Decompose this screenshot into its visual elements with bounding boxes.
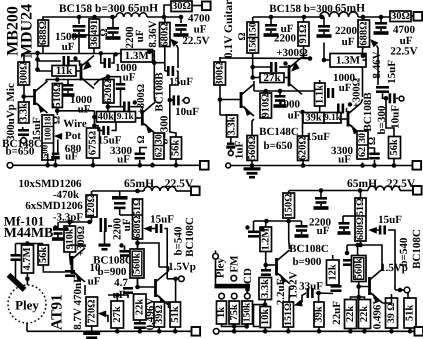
svg-text:39k: 39k: [314, 306, 325, 323]
wire 1.5Vp node: [167, 278, 176, 280]
wire leftcap down: [15, 261, 17, 279]
transistor BC148C (TR): [240, 84, 254, 116]
wire qBR2 collector: [381, 268, 384, 269]
wire 150 top: [288, 191, 290, 194]
resistor 36/491 stack: [89, 19, 100, 48]
wire 3300 tap: [140, 148, 147, 153]
svg-text:51Ω: 51Ω: [132, 198, 143, 216]
svg-text:9.1k: 9.1k: [324, 113, 342, 123]
svg-text:Pley: Pley: [15, 298, 39, 313]
wire 620 cap row: [108, 106, 123, 108]
wire cap910 stem: [57, 222, 59, 230]
wire tr left mid: [220, 57, 310, 60]
wire 910k stem: [69, 222, 71, 226]
svg-text:BC108B: BC108B: [154, 72, 166, 112]
svg-text:1.3M: 1.3M: [336, 54, 361, 66]
junction 620TR top: [300, 110, 305, 115]
junction rail TL 3: [91, 163, 96, 168]
transistor BC108C (BR2): [368, 269, 382, 303]
wire 1.3MTR left: [324, 59, 330, 61]
ground SMD (BL): [99, 244, 111, 251]
resistor 120ohm: [86, 194, 97, 218]
wire 22k-cap: [139, 320, 141, 322]
wire qBR2 base down: [358, 287, 360, 298]
terminal TR bottom right: [413, 161, 422, 170]
wire 3.3kBR bot: [264, 300, 266, 305]
wire wiper to 15uF: [177, 45, 179, 68]
wire 910k top rail: [59, 221, 92, 223]
resistor 680ohm (TL): [159, 22, 170, 46]
resistor 675ohm: [87, 128, 100, 158]
resistor 9.1k: [115, 112, 136, 123]
terminal sel 2: [231, 293, 237, 299]
wire TL mid rail: [24, 53, 121, 55]
wire wiperBR: [377, 229, 379, 231]
terminal sel 1: [219, 293, 225, 299]
wire pot wiper lead: [57, 140, 59, 153]
wire 4.7 stem: [127, 294, 129, 298]
wire 51kBR bot: [409, 328, 411, 331]
inductor 65mH (BR): [368, 186, 400, 190]
svg-text:56k: 56k: [389, 139, 400, 156]
svg-text:40k: 40k: [98, 111, 115, 122]
wire 15uFBL right: [164, 229, 167, 279]
wire 6230TR bottom: [362, 163, 364, 166]
junction railBL 1: [115, 329, 120, 334]
wire 4.7M frame: [16, 243, 44, 245]
resistor 680/51 stack (BL): [132, 198, 143, 239]
svg-text:1.1k: 1.1k: [314, 85, 325, 104]
junction TR rail b: [302, 15, 307, 20]
capacitor 2200uF (TR): [264, 24, 279, 37]
junction BR rail b: [358, 188, 363, 193]
junction sel bus2: [244, 324, 249, 329]
resistor 22k (BL): [134, 294, 147, 320]
resistor 1.2M: [260, 227, 272, 252]
wire cap base row: [38, 60, 62, 62]
wire 1uF to circ: [230, 149, 232, 151]
wire BR top rail: [289, 190, 368, 192]
capacitor 4700uF (TR): [374, 22, 389, 35]
junction 910k a: [67, 220, 72, 225]
wire 620TR top: [302, 112, 304, 136]
resistor 620ohm (TR): [298, 136, 309, 161]
wire q3 base: [136, 117, 141, 119]
svg-text:uF: uF: [117, 154, 130, 166]
svg-text:510Ω: 510Ω: [52, 83, 63, 107]
wire 560kBR top: [357, 245, 359, 256]
wire cap-1.3M link2: [111, 54, 114, 63]
wire pley tick: [215, 251, 217, 254]
svg-text:BC158 b=300: BC158 b=300: [59, 3, 126, 15]
svg-text:27k: 27k: [263, 72, 281, 84]
wire 10k bottom: [264, 328, 266, 332]
svg-text:Pot: Pot: [65, 130, 81, 142]
wire tapBR down: [342, 216, 344, 222]
wire 36491 bottom: [93, 48, 95, 53]
wire 27k rail: [108, 294, 128, 296]
junction TL rail b: [92, 15, 97, 20]
resistor 62/30 stack (TR): [357, 131, 368, 159]
capacitor 10uF (TL): [173, 95, 180, 105]
svg-text:688Ω: 688Ω: [38, 21, 49, 45]
wire 39 bottom: [158, 327, 160, 331]
capacitor under 22k: [134, 322, 146, 329]
wire 1.1k top: [319, 80, 321, 84]
wire smd link: [108, 225, 112, 227]
wire 2200uF top stem: [112, 17, 114, 27]
wire TL coil to node: [147, 16, 164, 18]
inductor 65mH (TL): [116, 13, 147, 17]
wire 151 bottom: [287, 327, 289, 331]
wire cap to base: [70, 61, 80, 66]
wire 22k2 bottom: [364, 329, 366, 332]
wire 15uF left: [94, 126, 102, 131]
svg-text:3.3k: 3.3k: [227, 116, 238, 135]
wire 151 wiper lead: [302, 293, 306, 303]
resistor 910k: [64, 226, 76, 252]
svg-text:27k: 27k: [112, 306, 123, 323]
wire 15uF coupling right: [177, 70, 178, 72]
wire BL top rail: [92, 190, 144, 192]
wire 300TR-3.3k: [219, 85, 221, 115]
wire 910 top: [265, 91, 267, 93]
wire 680BR tap: [343, 215, 355, 217]
svg-text:15uF: 15uF: [169, 76, 193, 88]
resistor 688ohm (TR): [358, 20, 370, 47]
junction qBL2 base: [135, 285, 140, 290]
svg-text:560k: 560k: [353, 258, 364, 279]
junction rail TL 7: [174, 163, 179, 168]
terminal BR bottom left: [213, 329, 219, 335]
capacitor base (BR): [261, 269, 271, 276]
svg-text:uF: uF: [338, 154, 351, 166]
svg-text:uF: uF: [339, 82, 352, 94]
svg-text:AT91: AT91: [49, 294, 66, 330]
wire TL top rail: [43, 17, 116, 20]
capacitor 2200uF (TL): [106, 27, 121, 40]
junction 1.3MTR left: [322, 58, 327, 63]
junction rail TL 1: [45, 163, 50, 168]
wire 15uFBR right: [388, 230, 395, 290]
svg-text:b=650: b=650: [6, 146, 35, 158]
wire 4.7M top stem: [26, 244, 28, 246]
junction 510 bottom: [55, 109, 60, 114]
wire qBL1 base: [69, 252, 72, 265]
wire 15uF right: [112, 123, 117, 131]
wiper arrow 720ohm: [98, 310, 107, 317]
wire y221 (BR): [267, 220, 302, 222]
wire 27k top: [116, 295, 118, 301]
wire 620 bottom: [107, 103, 109, 113]
wire 27k left rail: [253, 66, 270, 68]
wire 22k tops: [351, 297, 365, 300]
junction TL rail e: [179, 15, 184, 20]
svg-text:51k: 51k: [405, 305, 416, 322]
junction BR rail a: [319, 188, 324, 193]
svg-text:10k: 10k: [260, 309, 271, 326]
ground under 560ohm: [244, 167, 261, 178]
svg-text:65mH: 65mH: [347, 178, 377, 190]
junction CD bar: [245, 287, 250, 292]
capacitor 680uF: [51, 153, 60, 166]
resistor 3.3k (TL): [18, 102, 29, 123]
wire 1.2M top: [265, 221, 267, 227]
svg-text:b=900: b=900: [293, 256, 322, 268]
svg-text:33uF: 33uF: [299, 281, 323, 293]
switch bar: [215, 284, 251, 289]
wire BR coil to term: [400, 190, 413, 192]
capacitor left (BL): [11, 254, 21, 261]
wire micTR base: [220, 99, 240, 101]
wire 1.3MTR right: [363, 59, 367, 61]
resistor 156/150 stack: [247, 22, 259, 53]
wire leftcap up: [15, 244, 17, 255]
wiper arrow 151ohm: [294, 300, 303, 307]
wire TR coil to 30ohm: [358, 16, 390, 18]
resistor 56k (BL): [38, 245, 49, 265]
wire cap-rail: [139, 329, 141, 331]
wire 75k stem: [233, 324, 235, 331]
resistor 1.1k: [314, 83, 325, 106]
resistor 151ohm: [283, 302, 294, 327]
capacitor lower (BR): [295, 225, 309, 238]
svg-text:1k: 1k: [216, 307, 227, 318]
wire 300TR top: [219, 57, 221, 62]
wire 3300TR tap: [368, 148, 375, 153]
resistor 560k (BL): [130, 249, 144, 278]
resistor 11k: [52, 65, 76, 77]
wire 3.3kTR bottom: [230, 137, 232, 143]
wire 1000TR stem: [279, 91, 281, 95]
svg-text:uF: uF: [317, 225, 330, 237]
svg-text:10: 10: [90, 262, 102, 274]
terminal mic input: [21, 138, 27, 144]
junction 27k top: [115, 293, 120, 298]
wire qBR1 base: [266, 264, 275, 266]
resistor 39k (BR): [314, 302, 325, 327]
junction mic base node: [21, 94, 26, 99]
wire TL node to 4700uF: [164, 16, 181, 18]
svg-text:b=540: b=540: [173, 226, 185, 255]
capacitor 4.7uF (BL): [123, 287, 133, 294]
wire node62 down: [153, 50, 155, 99]
resistor 620ohm (TL): [103, 79, 114, 103]
capacitor by 560k (BL): [120, 250, 130, 257]
wire 40k link: [94, 116, 96, 118]
wire 720 bottom: [91, 326, 93, 331]
terminal Pley (BR): [213, 253, 219, 259]
terminal 10uF out: [184, 98, 190, 104]
wire cap to circle: [23, 137, 25, 139]
wire 150k stem: [246, 324, 248, 326]
wire smd2 stem: [104, 231, 106, 244]
svg-text:Ω: Ω: [367, 137, 378, 145]
capacitor by 910k: [52, 228, 64, 241]
wire 56k bottom: [175, 159, 177, 165]
svg-text:Wire: Wire: [63, 118, 87, 130]
capacitor 15uF (TR): [376, 86, 389, 93]
svg-text:12k: 12k: [327, 264, 338, 281]
svg-text:91Ω: 91Ω: [298, 25, 309, 44]
svg-text:51Ω: 51Ω: [355, 198, 366, 216]
wiper arrow 680 (BR): [368, 227, 377, 234]
transistor BC108C (BL2): [154, 271, 168, 305]
wire coll down (BR): [288, 221, 290, 240]
junction micTR base: [218, 97, 223, 102]
wire wiperTR down: [377, 46, 379, 86]
wire 720 wiper lead: [106, 316, 108, 323]
wire 56kTR top: [386, 98, 394, 136]
wire cap-1.3M link: [101, 53, 104, 63]
wiper arrow wire pot: [54, 133, 63, 140]
svg-text:680Ω: 680Ω: [159, 22, 170, 46]
junction pley top: [25, 277, 30, 282]
wire 150 bottom: [288, 218, 290, 221]
svg-text:151Ω: 151Ω: [283, 303, 294, 326]
wire 560k bot stem: [137, 278, 139, 287]
terminal TR output top: [414, 12, 423, 21]
svg-text:8.7V 470nF: 8.7V 470nF: [72, 276, 84, 330]
junction railBL 4: [173, 329, 178, 334]
capacitor base (TL): [63, 56, 70, 66]
wire node62 left: [154, 62, 165, 64]
svg-text:39 Ω: 39 Ω: [386, 303, 397, 324]
capacitor 10uF (TR): [389, 93, 396, 103]
svg-text:150Ω: 150Ω: [283, 193, 294, 217]
wire 156 top: [252, 17, 254, 22]
resistor 40k: [97, 111, 116, 122]
terminal BR bottom right: [415, 327, 423, 336]
svg-text:1.92V: 1.92V: [288, 271, 300, 298]
svg-text:uF: uF: [123, 72, 136, 84]
wire 39k top: [318, 293, 320, 302]
junction railBR 0: [232, 329, 237, 334]
svg-text:15uF: 15uF: [306, 131, 330, 143]
terminal 1.5Vp (BL): [179, 276, 185, 282]
wire BR frame: [347, 245, 382, 269]
wire 11k left rail: [38, 53, 53, 71]
terminal TR bottom left: [226, 163, 231, 168]
resistor 560k (BR): [352, 256, 367, 282]
wire qBR1 emitter: [288, 287, 291, 303]
capacitor base BC108B (TR): [337, 104, 344, 114]
svg-text:100: 100: [43, 127, 53, 141]
wire mic base: [24, 96, 33, 98]
wire TL bottom rail: [13, 164, 200, 166]
resistor 30ohm (TR): [390, 11, 411, 22]
wire 156 bottom: [252, 53, 254, 57]
resistor 1k: [216, 301, 227, 324]
wire micTR coll stem: [253, 84, 255, 91]
svg-text:56k: 56k: [38, 247, 49, 264]
junction railTR 1: [250, 163, 255, 168]
junction 33uF: [316, 291, 321, 296]
junction railBR 7: [408, 329, 413, 334]
capacitor 1.1k top: [327, 88, 334, 98]
svg-text:BC158 b=300: BC158 b=300: [269, 3, 333, 15]
terminal 10uF out (TR): [399, 96, 404, 101]
svg-text:150: 150: [247, 22, 258, 37]
wire 560TR bottom: [251, 161, 253, 166]
svg-text:39Ω: 39Ω: [154, 305, 165, 324]
junction TR rail d: [361, 15, 366, 20]
junction TR rail c: [320, 15, 325, 20]
wire BL coil to term: [176, 190, 191, 192]
svg-text:65mH: 65mH: [124, 178, 154, 190]
wire pley bottom: [26, 323, 28, 331]
wire mic emitter to pot: [47, 115, 49, 116]
svg-text:51k: 51k: [170, 306, 181, 323]
wire 10uFTR circ: [396, 97, 398, 99]
svg-text:uF: uF: [88, 276, 101, 288]
junction 620 bottom: [106, 104, 111, 109]
junction 10uFTR: [384, 96, 389, 101]
wire 3.3k to cap: [22, 127, 24, 129]
wire 120 bottom: [91, 217, 93, 222]
wire 680BL bottom: [137, 239, 139, 247]
capacitor SMD (BL): [100, 218, 107, 232]
resistor 91ohm: [298, 22, 309, 46]
wiper arrow 680ohm (TL): [170, 39, 178, 47]
wire to 10uF: [170, 71, 178, 100]
wire TR mid rail: [254, 90, 315, 92]
resistor 150k: [242, 301, 253, 324]
wire micTR emitter down: [252, 119, 254, 136]
svg-text:560k: 560k: [132, 253, 143, 274]
resistor 51k (BL): [170, 302, 181, 327]
wire 33uF on: [319, 292, 333, 295]
svg-text:910Ω: 910Ω: [260, 93, 271, 117]
junction 22k tops: [356, 295, 361, 300]
junction 688TR bottom: [360, 58, 365, 63]
junction qBR2 base: [356, 284, 361, 289]
svg-text:uF: uF: [194, 24, 207, 36]
wire 300ohm top stem: [23, 53, 25, 62]
wire 39ohmBR top: [391, 294, 393, 298]
wire qBR2 emitter: [383, 298, 392, 303]
junction mid rail: [35, 51, 40, 56]
resistor 910ohm: [260, 93, 272, 118]
junction y221 b: [286, 219, 291, 224]
wire y221 left (BR): [254, 220, 267, 222]
capacitor 1uF input: [226, 143, 235, 149]
capacitor base (TR): [270, 62, 277, 72]
svg-text:b=650: b=650: [264, 140, 293, 152]
capacitor 1000uF (TL left): [62, 84, 75, 97]
junction 560kBR topdot: [355, 243, 360, 248]
resistor 12k: [327, 260, 340, 285]
svg-text:4.7M: 4.7M: [22, 247, 33, 270]
svg-text:300Ω: 300Ω: [18, 61, 29, 85]
junction TL rail a: [77, 15, 82, 20]
junction BR frame: [345, 251, 350, 256]
resistor 1.3M (TR): [330, 53, 366, 67]
resistor 3.3k (TR): [227, 115, 238, 137]
terminal BL right top: [191, 187, 200, 196]
capacitor by 560k (BR): [343, 259, 352, 266]
transducer Pley head: [8, 285, 46, 323]
wire qBR2 base: [359, 282, 368, 287]
capacitor 33uF: [307, 288, 314, 298]
junction 675 vert b: [92, 123, 97, 128]
svg-text:11k: 11k: [56, 65, 73, 77]
wire q3TR base: [341, 118, 347, 120]
wire 27k bottom: [116, 328, 118, 331]
wire wiperBL: [152, 228, 156, 230]
svg-text:CD: CD: [242, 268, 254, 284]
svg-text:M44MB: M44MB: [4, 226, 54, 241]
